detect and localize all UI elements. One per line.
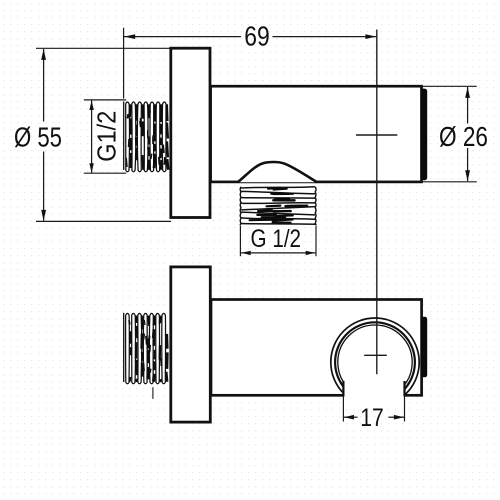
holder ring opening erase: [344, 379, 403, 409]
dimension 69: arrows: [124, 34, 135, 39]
dimension 69: extension line left: [123, 28, 125, 99]
svg-text:Ø 55: Ø 55: [14, 122, 62, 153]
end cap dark band, bottom view: [421, 317, 427, 378]
dimension G 1/2 outlet: arrows: [241, 251, 251, 255]
dimension 17: arrows: [344, 415, 354, 420]
outlet dome above lower thread, top view: [238, 162, 317, 182]
dimension 69: dimension line: [124, 36, 241, 38]
dimension 17: extension line right: [404, 397, 406, 422]
svg-text:G1/2: G1/2: [92, 111, 122, 162]
centre mark horizontal, top view: [356, 134, 397, 136]
dimension G1/2 left thread: arrows: [89, 101, 93, 111]
dimension 17: dimension line: [344, 416, 358, 418]
svg-text:17: 17: [360, 404, 384, 432]
dimension G 1/2 outlet: extension line right: [315, 226, 317, 256]
holder ring opening edge left: [342, 381, 344, 396]
svg-text:Ø 26: Ø 26: [439, 121, 488, 152]
end cap dark band, top view: [421, 89, 428, 181]
svg-text:69: 69: [244, 20, 270, 51]
dimension G1/2 left thread: tick bottom: [84, 172, 126, 174]
dimension G1/2 left thread: dimension line: [91, 101, 93, 173]
thread G 1/2 outlet, downward pipe, top view: [240, 185, 316, 226]
dimension G 1/2 outlet: dimension line: [241, 252, 315, 254]
dimension Ø55: dimension line: [43, 49, 45, 122]
svg-text:G 1/2: G 1/2: [251, 225, 302, 253]
wall flange disc, top view: [171, 48, 210, 217]
dimension Ø55: extension line bottom: [36, 220, 171, 222]
thread runout tick, bottom view: [152, 387, 154, 399]
wall flange disc, bottom view: [171, 267, 211, 422]
dimension Ø26: dimension line: [467, 87, 469, 124]
centre mark horizontal, bottom view: [364, 354, 387, 356]
vertical centreline through both views: [376, 30, 378, 375]
dimension G1/2 left thread: tick top: [84, 99, 126, 101]
holder ring opening edge right: [403, 381, 405, 396]
dimension G 1/2 outlet: extension line left: [239, 226, 241, 256]
thread G1/2 male, left pipe, bottom view: [123, 311, 169, 385]
holder ring outer circle: [331, 318, 419, 406]
holder ring inner circle: [338, 325, 412, 399]
dimension Ø26: arrows: [465, 87, 470, 98]
dimension Ø55: extension line top: [36, 47, 170, 49]
holder ring middle circle: [335, 322, 415, 402]
dimension Ø55: arrows: [41, 49, 46, 60]
dimension 17: extension line left: [342, 397, 344, 422]
dimension Ø26: extension line top: [422, 85, 477, 87]
thread G1/2 male, left pipe, top view: [123, 99, 170, 173]
body cylinder, bottom view: [211, 300, 422, 396]
dimension Ø26: extension line bottom: [422, 181, 477, 183]
body cylinder, top view: [211, 86, 422, 182]
